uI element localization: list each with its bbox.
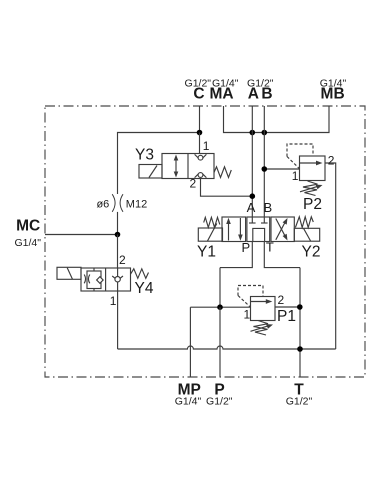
svg-text:T: T (266, 239, 274, 254)
valve Y3 port 2 label (190, 177, 197, 191)
node B on gauge bus (262, 130, 268, 136)
svg-text:2: 2 (278, 293, 285, 307)
solenoid Y2 box (294, 228, 319, 241)
node P1 outlet on T line (297, 304, 303, 310)
valve Y4 port 1 label (110, 294, 117, 308)
port B label (261, 86, 272, 103)
solenoid Y1 box (198, 224, 222, 242)
valve Y1Y2 centre position P-T bridge (253, 228, 265, 241)
relief valve P1 body (251, 297, 276, 321)
port T label (286, 381, 313, 407)
svg-text:M12: M12 (126, 198, 147, 210)
svg-text:2: 2 (328, 154, 335, 168)
wire MP branch of P1 bus (190, 306, 250, 308)
valve Y1Y2 label T (266, 239, 274, 254)
svg-text:1: 1 (203, 139, 210, 153)
svg-text:G1/4": G1/4" (14, 237, 41, 249)
wire T bus with hops (118, 346, 336, 349)
node A on gauge bus (250, 130, 256, 136)
valve Y3 top poppet seat (195, 154, 207, 160)
svg-text:2: 2 (119, 253, 126, 267)
valve Y4 body (81, 268, 131, 291)
relief valve P1 arrow (251, 299, 273, 304)
orifice symbol (112, 194, 123, 212)
wire MC port (45, 234, 118, 236)
svg-text:1: 1 (110, 294, 117, 308)
relief valve P2 port 2 wire (325, 163, 336, 349)
node Y3 outlet on A line (250, 193, 256, 199)
valve Y1Y2 centre position blocked B (261, 217, 268, 223)
solenoid Y2 spring (295, 217, 313, 228)
valve Y1Y2 left position arrows (226, 218, 243, 241)
valve Y3 body (162, 154, 214, 179)
svg-text:B: B (261, 86, 272, 103)
svg-text:A: A (248, 86, 259, 103)
wire C to orifice branch (118, 133, 200, 195)
valve Y3 port 2 wire to node A (201, 179, 253, 197)
valve Y1Y2 label A (247, 200, 256, 215)
wire C port down (199, 106, 201, 133)
solenoid Y1 spring (204, 217, 220, 227)
node C junction (197, 130, 203, 136)
relief valve P1 port 1 label (244, 308, 251, 322)
svg-text:G1/4": G1/4" (175, 396, 202, 408)
valve Y4 port 1 wire down to T bus (117, 291, 119, 349)
valve Y1Y2 centre position blocked A (249, 217, 256, 223)
valve Y3 solenoid (139, 165, 162, 179)
svg-text:Y2: Y2 (302, 244, 321, 261)
solenoid Y1 label (197, 244, 216, 261)
valve Y4 port 2 label (119, 253, 126, 267)
relief valve P2 spring (300, 181, 323, 196)
relief valve P2 pilot dashed line (287, 144, 313, 157)
valve Y4 spring (131, 269, 149, 279)
port A label (247, 77, 274, 102)
port MA label (209, 77, 238, 102)
svg-text:MB: MB (321, 86, 345, 103)
svg-text:B: B (263, 200, 272, 215)
svg-text:Y1: Y1 (197, 244, 216, 261)
relief valve P2 port 2 label (328, 154, 335, 168)
valve Y3 port 1 wire (199, 133, 201, 154)
relief valve P2 port 1 label (292, 169, 299, 183)
relief valve P2 body (300, 156, 326, 181)
node P2 inlet on B line (262, 166, 268, 172)
solenoid Y2 label (302, 244, 321, 261)
relief valve P1 port 2 label (278, 293, 285, 307)
valve Y4 solenoid (57, 267, 81, 279)
port C label (185, 77, 212, 102)
node MC junction (115, 232, 121, 238)
wire P line down (219, 307, 221, 377)
svg-text:P: P (241, 240, 250, 255)
valve Y3 spring (214, 167, 231, 178)
valve Y1Y2 label B (263, 200, 272, 215)
relief valve P1 port 2 wire (275, 306, 300, 308)
relief valve P2 label (303, 196, 322, 213)
port MP label (175, 381, 202, 407)
port P label (206, 381, 233, 407)
svg-text:Y3: Y3 (135, 146, 154, 163)
svg-text:ø6: ø6 (96, 198, 109, 210)
relief valve P2 port 1 wire from node B (264, 168, 299, 170)
svg-text:Y4: Y4 (135, 280, 154, 297)
valve Y3 bottom poppet seat (195, 173, 207, 178)
node P line on P1 bus (217, 304, 223, 310)
svg-text:G1/2": G1/2" (206, 396, 233, 408)
relief valve P1 spring (251, 321, 274, 336)
svg-text:P1: P1 (277, 308, 296, 325)
wire MC node down to valve Y4 port 2 (117, 235, 119, 269)
node T junction on T bus (297, 346, 303, 352)
enclosure dash-dot border (45, 106, 365, 377)
valve Y3 label (135, 146, 154, 163)
svg-text:C: C (193, 86, 204, 103)
port MB label (320, 77, 347, 102)
valve Y4 cartridge box (87, 268, 101, 291)
relief valve P1 label (277, 308, 296, 325)
wire B line down to valve (263, 106, 265, 217)
valve Y4 check valve (112, 268, 123, 291)
valve Y1Y2 label P (241, 240, 250, 255)
orifice label ø6 (96, 198, 109, 210)
wire MA down and gauge bus to MB (224, 106, 330, 133)
svg-text:MA: MA (209, 86, 233, 103)
relief valve P1 pilot dashed line (238, 286, 263, 297)
svg-text:1: 1 (244, 308, 251, 322)
valve Y1Y2 right position crossed arrows (276, 218, 288, 241)
valve Y3 flow arrow (174, 155, 179, 178)
orifice label M12 (126, 198, 147, 210)
wire T down to bottom port (299, 268, 301, 377)
svg-text:A: A (247, 200, 256, 215)
svg-text:1: 1 (292, 169, 299, 183)
svg-text:P2: P2 (303, 196, 322, 213)
port MC label (14, 217, 41, 249)
valve Y1Y2 body (222, 217, 294, 242)
valve Y3 port 1 label (203, 139, 210, 153)
wire MP line down (189, 307, 191, 377)
svg-text:MC: MC (16, 217, 40, 234)
wire valve P port down-left (220, 242, 252, 268)
wire valve T port down-right (264, 242, 300, 268)
wire orifice down to MC node (117, 212, 119, 235)
relief valve P2 arrow (300, 161, 323, 166)
valve Y4 cartridge orifice (84, 275, 90, 284)
valve Y4 cartridge check diamond (97, 277, 104, 284)
svg-text:2: 2 (190, 177, 197, 191)
svg-text:G1/2": G1/2" (286, 396, 313, 408)
wire A line down to valve (251, 106, 253, 217)
wire P down to P1 bus (219, 268, 221, 308)
valve Y4 label (135, 280, 154, 297)
